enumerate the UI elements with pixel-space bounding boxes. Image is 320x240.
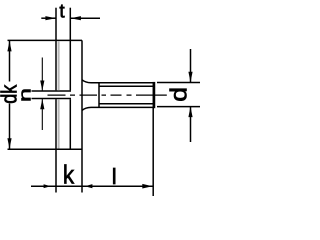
svg-text:t: t — [59, 1, 65, 22]
svg-text:l: l — [112, 164, 117, 189]
svg-text:n: n — [15, 88, 34, 102]
svg-text:k: k — [63, 161, 75, 190]
svg-text:d: d — [166, 87, 192, 102]
